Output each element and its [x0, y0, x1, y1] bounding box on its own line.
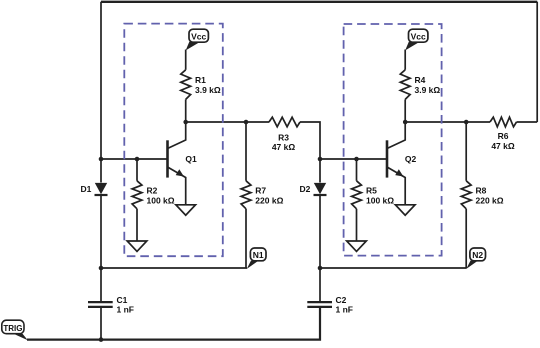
resistor R3	[269, 117, 300, 127]
svg-text:Q2: Q2	[405, 154, 417, 164]
dashed subcircuit box stage 2	[344, 24, 442, 256]
node junction N1 on left rail	[99, 266, 104, 271]
node junction Q1 collector	[183, 120, 188, 125]
svg-text:3.9 kΩ: 3.9 kΩ	[415, 85, 441, 95]
power Vcc flag VCC1 tail	[186, 42, 199, 51]
power Vcc flag VCC2 box	[409, 29, 428, 42]
wire node N2 horizontal	[320, 267, 467, 269]
svg-text:TRIG: TRIG	[3, 324, 22, 333]
svg-text:220 kΩ: 220 kΩ	[476, 195, 504, 205]
transistor Q1 emitter lead	[168, 167, 186, 205]
wire right rail down to R6	[536, 2, 538, 122]
resistor R7	[241, 181, 251, 209]
svg-text:R5: R5	[366, 186, 377, 196]
node N2 flag tail	[466, 261, 478, 269]
transistor Q2 collector lead	[387, 122, 405, 149]
svg-text:R4: R4	[415, 75, 426, 85]
ground below Q2 emitter	[395, 205, 415, 215]
svg-text:100 kΩ: 100 kΩ	[366, 195, 394, 205]
capacitor C1 bottom plate	[88, 306, 113, 308]
resistor R6	[490, 117, 517, 127]
diode D1 cathode bar	[95, 194, 108, 196]
wire R5 top lead	[356, 159, 358, 181]
port TRIG flag box	[2, 320, 24, 334]
svg-text:N2: N2	[472, 250, 483, 260]
svg-text:47 kΩ: 47 kΩ	[272, 142, 296, 152]
wire R1 bottom lead	[185, 99, 187, 122]
wire R8 top lead	[465, 122, 467, 181]
capacitor C2 top plate	[307, 301, 332, 303]
svg-text:Q1: Q1	[185, 154, 197, 164]
node N1 flag box	[250, 248, 266, 261]
dashed subcircuit box stage 1	[124, 24, 223, 257]
transistor Q2 base bar	[386, 140, 389, 177]
resistor R8	[461, 181, 471, 209]
node junction C1 bottom rail	[99, 337, 104, 342]
node junction R8 top	[464, 120, 469, 125]
wire R2 top lead	[136, 159, 138, 181]
transistor Q2 emitter arrow	[395, 169, 403, 176]
wire middle rail mid (below D2)	[319, 195, 321, 302]
wire base of Q1	[101, 158, 168, 160]
power Vcc flag VCC2 tail	[405, 42, 418, 51]
node junction Q2 collector	[403, 120, 408, 125]
resistor R5	[352, 181, 362, 209]
svg-text:D1: D1	[81, 184, 92, 194]
node N1 flag tail	[247, 261, 258, 269]
capacitor C1 top plate	[88, 301, 113, 303]
capacitor C2 bottom plate	[307, 306, 332, 308]
resistor R4	[400, 70, 410, 100]
diode D2	[314, 183, 326, 194]
wire middle rail upper (R3 right to D2)	[300, 122, 320, 183]
port TRIG flag tail	[14, 334, 28, 341]
wire node N1 horizontal	[101, 267, 247, 269]
transistor Q1 emitter arrow	[176, 169, 184, 176]
node junction R7 top	[244, 120, 249, 125]
svg-text:Vcc: Vcc	[191, 32, 206, 42]
wire R4 bottom lead	[404, 99, 406, 122]
node junction R2 branch	[135, 157, 140, 162]
transistor Q1 collector lead	[168, 122, 186, 149]
wire bottom (TRIG net)	[27, 307, 320, 340]
ground below R2	[127, 241, 147, 251]
wire R7 bottom lead	[245, 209, 247, 268]
power Vcc flag VCC1 box	[189, 29, 208, 42]
svg-text:R7: R7	[255, 186, 266, 196]
node junction R5 branch	[354, 157, 359, 162]
svg-text:47 kΩ: 47 kΩ	[491, 141, 515, 151]
svg-text:R8: R8	[476, 186, 487, 196]
wire left rail lower (below C1)	[100, 307, 102, 340]
node junction base rail Q1	[99, 157, 104, 162]
wire collector Q1 to R3	[186, 121, 270, 123]
svg-text:Vcc: Vcc	[411, 32, 426, 42]
wire R7 top lead	[245, 122, 247, 181]
wire R1 top lead to Vcc	[185, 50, 187, 70]
ground below Q1 emitter	[176, 205, 196, 215]
node junction N2 on middle rail	[318, 266, 323, 271]
wire left rail mid (below D1)	[100, 195, 102, 302]
wire collector Q2 to R6	[405, 121, 490, 123]
wire left rail upper	[100, 2, 102, 183]
svg-text:R2: R2	[147, 186, 158, 196]
svg-text:1 nF: 1 nF	[117, 304, 134, 314]
wire R8 bottom lead	[465, 209, 467, 268]
node junction base rail Q2	[318, 157, 323, 162]
svg-text:220 kΩ: 220 kΩ	[255, 195, 283, 205]
wire R2 bottom lead	[136, 209, 138, 241]
svg-text:R6: R6	[498, 131, 509, 141]
wire base of Q2	[320, 158, 387, 160]
node N2 flag box	[470, 248, 486, 261]
svg-text:N1: N1	[253, 250, 264, 260]
svg-text:3.9 kΩ: 3.9 kΩ	[195, 85, 221, 95]
resistor R2	[132, 181, 142, 209]
diode D1	[95, 183, 107, 194]
svg-text:R3: R3	[278, 132, 289, 142]
svg-text:R1: R1	[195, 75, 206, 85]
wire R4 top lead to Vcc	[404, 50, 406, 70]
resistor R1	[181, 70, 191, 100]
transistor Q2 emitter lead	[387, 167, 405, 205]
wire top rail	[101, 1, 537, 3]
wire R6 to right rail	[517, 121, 538, 123]
wire R5 bottom lead	[356, 209, 358, 241]
ground below R5	[347, 241, 367, 251]
svg-text:1 nF: 1 nF	[336, 304, 353, 314]
transistor Q1 base bar	[166, 140, 169, 177]
svg-text:100 kΩ: 100 kΩ	[147, 195, 175, 205]
diode D2 cathode bar	[314, 194, 327, 196]
svg-text:D2: D2	[300, 184, 311, 194]
